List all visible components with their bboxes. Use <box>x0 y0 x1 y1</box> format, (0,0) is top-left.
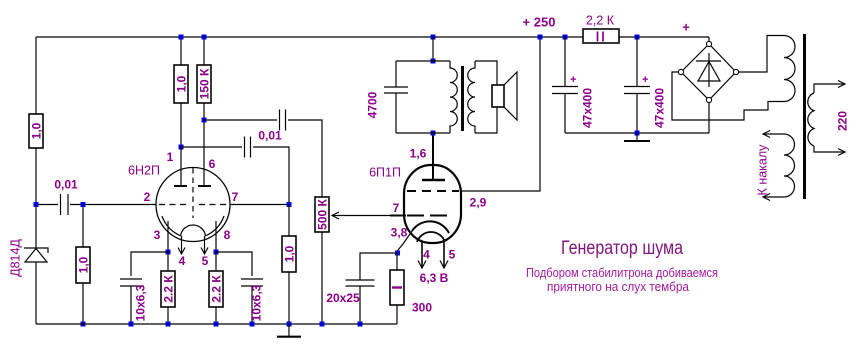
svg-text:7: 7 <box>393 201 400 215</box>
svg-text:2: 2 <box>144 190 151 204</box>
resistor R2 1,0 grid leak <box>76 207 91 324</box>
U1 divider dashed line <box>192 168 194 218</box>
wire secondary loop <box>475 61 497 133</box>
svg-text:1,6: 1,6 <box>410 147 427 161</box>
svg-text:10х6,3: 10х6,3 <box>250 284 264 321</box>
node negative bus C9 <box>635 131 640 136</box>
resistor R4 150 K anode load right triode <box>197 37 212 186</box>
U1 grid dashes left <box>159 204 187 206</box>
heater winding bottom lead arrow <box>763 194 784 201</box>
transformer T2 HV winding <box>784 36 795 102</box>
svg-text:6Н2П: 6Н2П <box>128 164 160 178</box>
node cathode right junction <box>214 250 219 255</box>
transformer T1 core <box>461 66 464 131</box>
resistor R7 1,0 grid leak right triode <box>282 205 297 325</box>
svg-text:2.2 К: 2.2 К <box>210 275 224 303</box>
potentiometer R8 500K <box>315 197 330 324</box>
220 winding bottom lead arrow <box>814 146 845 156</box>
svg-text:1,0: 1,0 <box>77 256 91 273</box>
capacitor C6 20x25 cathode bypass <box>346 253 398 324</box>
svg-text:4700: 4700 <box>366 91 380 118</box>
capacitor C7 4700 across primary <box>384 61 408 133</box>
svg-text:20х25: 20х25 <box>326 291 360 305</box>
svg-text:4: 4 <box>179 254 186 268</box>
wire U1 cathode pin8 lead <box>215 221 217 252</box>
pin labels U2 <box>391 147 487 262</box>
svg-text:6П1П: 6П1П <box>369 166 401 180</box>
node screen feed top bus <box>538 35 543 40</box>
pin labels U1 <box>144 150 239 268</box>
zener diode VD1 D814D <box>24 248 48 324</box>
U1 anode plate left <box>174 185 187 187</box>
node output transformer feed top bus <box>431 35 436 40</box>
svg-text:К накалу: К накалу <box>756 144 770 196</box>
svg-text:5: 5 <box>449 248 456 262</box>
svg-text:2.2 К: 2.2 К <box>162 275 176 303</box>
U1 grid dashes right <box>199 204 229 206</box>
svg-text:47х400: 47х400 <box>653 88 667 128</box>
svg-text:Подбором стабилитрона добиваем: Подбором стабилитрона добиваемся <box>526 266 718 280</box>
wire primary loop top <box>396 60 450 62</box>
U1 cathode arc left <box>162 216 181 236</box>
svg-text:8: 8 <box>224 228 231 242</box>
node C4 bottom bus <box>129 322 134 327</box>
wire bottom ground bus <box>36 323 397 325</box>
node R6 bottom bus <box>214 322 219 327</box>
node R2 bottom bus <box>81 322 86 327</box>
wire pin1 anode lead <box>180 147 182 186</box>
svg-text:+: + <box>642 74 648 86</box>
node junction left rail / C1 <box>34 202 39 207</box>
svg-text:+: + <box>682 20 690 35</box>
tube U2 6P1P envelope <box>404 165 461 243</box>
transformer T1 secondary winding <box>468 61 475 133</box>
svg-text:500 К: 500 К <box>316 198 330 229</box>
capacitor C3 0,01 coupling <box>181 137 289 203</box>
svg-text:0,01: 0,01 <box>258 129 282 143</box>
220 winding top lead arrow <box>814 81 845 94</box>
svg-text:Генератор шума: Генератор шума <box>561 238 683 259</box>
svg-text:Д814Д: Д814Д <box>9 239 23 277</box>
wire negative bus <box>565 132 709 134</box>
svg-text:7: 7 <box>232 190 239 204</box>
svg-text:3,8: 3,8 <box>391 226 408 240</box>
wire bridge top to bus <box>708 37 710 41</box>
wire left rail upper segment <box>35 37 37 114</box>
ground symbol bottom bus <box>277 324 301 337</box>
resistor R9 300 cathode <box>390 253 404 324</box>
U2 anode lead <box>432 133 434 180</box>
node R4 top bus <box>202 35 207 40</box>
wire U2 screen to +250 <box>461 37 540 191</box>
svg-text:6: 6 <box>209 157 216 171</box>
svg-text:5: 5 <box>202 254 209 268</box>
node R4 bottom / coupling wire <box>202 118 207 123</box>
bridge rectifier VD2 diamond <box>681 44 736 100</box>
capacitor C8 47x400 first filter <box>552 37 578 133</box>
node R3 bottom / C3 wire <box>179 145 184 150</box>
capacitor C9 47x400 second filter <box>624 37 650 133</box>
transformer T2 core <box>803 34 806 199</box>
wire left rail lower segment <box>35 148 37 248</box>
svg-text:2,9: 2,9 <box>470 196 487 210</box>
node U2 cathode junction <box>395 251 400 256</box>
U2 heater pin 5 arrow <box>440 242 448 268</box>
node R3 top bus <box>179 35 184 40</box>
svg-text:6,3 В: 6,3 В <box>420 271 449 285</box>
svg-text:220: 220 <box>836 111 850 131</box>
node primary bottom <box>431 131 436 136</box>
svg-text:0,01: 0,01 <box>54 178 78 192</box>
svg-text:10х6,3: 10х6,3 <box>134 284 148 321</box>
heater winding top lead arrow <box>763 131 784 138</box>
svg-text:1: 1 <box>167 150 174 164</box>
wire U1 pin7 grid lead to junction <box>230 204 289 206</box>
R8 wiper arrow to U2 grid <box>332 212 406 219</box>
node C9 top bus <box>635 35 640 40</box>
node C5 bottom bus <box>250 322 255 327</box>
wire primary loop bottom <box>396 132 450 134</box>
node cathode left junction <box>166 250 171 255</box>
wire U1 cathode pin3 lead <box>167 221 169 252</box>
speaker BA1 <box>492 72 517 120</box>
wire bridge left AC to HV winding bottom <box>672 72 784 120</box>
U2 heater pin 4 arrow <box>418 242 426 268</box>
wire bridge bottom to negative bus <box>708 103 710 133</box>
node junction C1 / R2 grid <box>81 202 86 207</box>
bridge internal diode <box>696 53 721 87</box>
svg-text:4: 4 <box>423 248 430 262</box>
U2 control grid dashed <box>407 215 447 217</box>
resistor R1 1,0 top-left <box>29 114 44 148</box>
resistor R5 2,2K cathode left <box>161 252 176 324</box>
transformer T2 heater winding <box>784 134 795 197</box>
ground symbol PSU <box>624 133 650 141</box>
node primary top <box>431 59 436 64</box>
node pin7 junction <box>287 202 292 207</box>
U1 heater pin 5 arrow <box>201 236 208 254</box>
node R5 bottom bus <box>166 322 171 327</box>
svg-text:150 К: 150 К <box>198 68 212 99</box>
tube U1 6N2P envelope <box>156 168 230 242</box>
capacitor C1 0,01 input <box>39 194 157 215</box>
transformer T1 primary winding <box>450 61 457 133</box>
capacitor C5 10x6,3 right bypass <box>216 252 263 324</box>
svg-text:+: + <box>570 74 576 86</box>
U1 anode plate right <box>198 185 211 187</box>
node R8 bottom bus <box>320 322 325 327</box>
svg-text:1,0: 1,0 <box>283 245 297 262</box>
U2 cathode lead hook <box>397 231 412 253</box>
U2 anode plate <box>422 179 445 181</box>
svg-text:+ 250: + 250 <box>523 15 556 30</box>
transformer T2 220 winding <box>808 93 814 146</box>
node C6 bottom bus <box>358 322 363 327</box>
svg-text:приятного на слух тембра: приятного на слух тембра <box>547 280 689 294</box>
U1 heater arch <box>181 225 206 236</box>
U2 cathode arc <box>412 221 449 233</box>
wire bridge right AC to HV winding top <box>739 36 784 73</box>
svg-text:3: 3 <box>154 228 161 242</box>
resistor R3 1,0 anode load left triode <box>174 37 189 147</box>
capacitor C4 10x6,3 left bypass <box>120 252 168 324</box>
bridge terminal circles <box>678 41 738 102</box>
wire top bus to transformer primary <box>432 37 434 61</box>
svg-text:2,2 К: 2,2 К <box>586 14 615 28</box>
U1 cathode arc right <box>205 216 224 236</box>
capacitor C2 coupling to 500K <box>204 110 322 198</box>
svg-text:300: 300 <box>412 301 432 315</box>
resistor R10 2,2K filter <box>583 29 619 43</box>
resistor R6 2,2K cathode right <box>209 252 224 324</box>
U2 heater arch <box>417 232 445 242</box>
U2 screen grid dashed <box>407 190 459 192</box>
wire top supply bus right part <box>619 36 709 38</box>
node R7 bottom bus <box>287 322 292 327</box>
wire top supply bus left part <box>36 36 583 38</box>
svg-text:1,0: 1,0 <box>175 75 189 92</box>
svg-text:47х400: 47х400 <box>581 88 595 128</box>
node C8 top bus <box>563 35 568 40</box>
svg-text:1,0: 1,0 <box>30 122 44 139</box>
U1 heater pin 4 arrow <box>178 236 185 254</box>
